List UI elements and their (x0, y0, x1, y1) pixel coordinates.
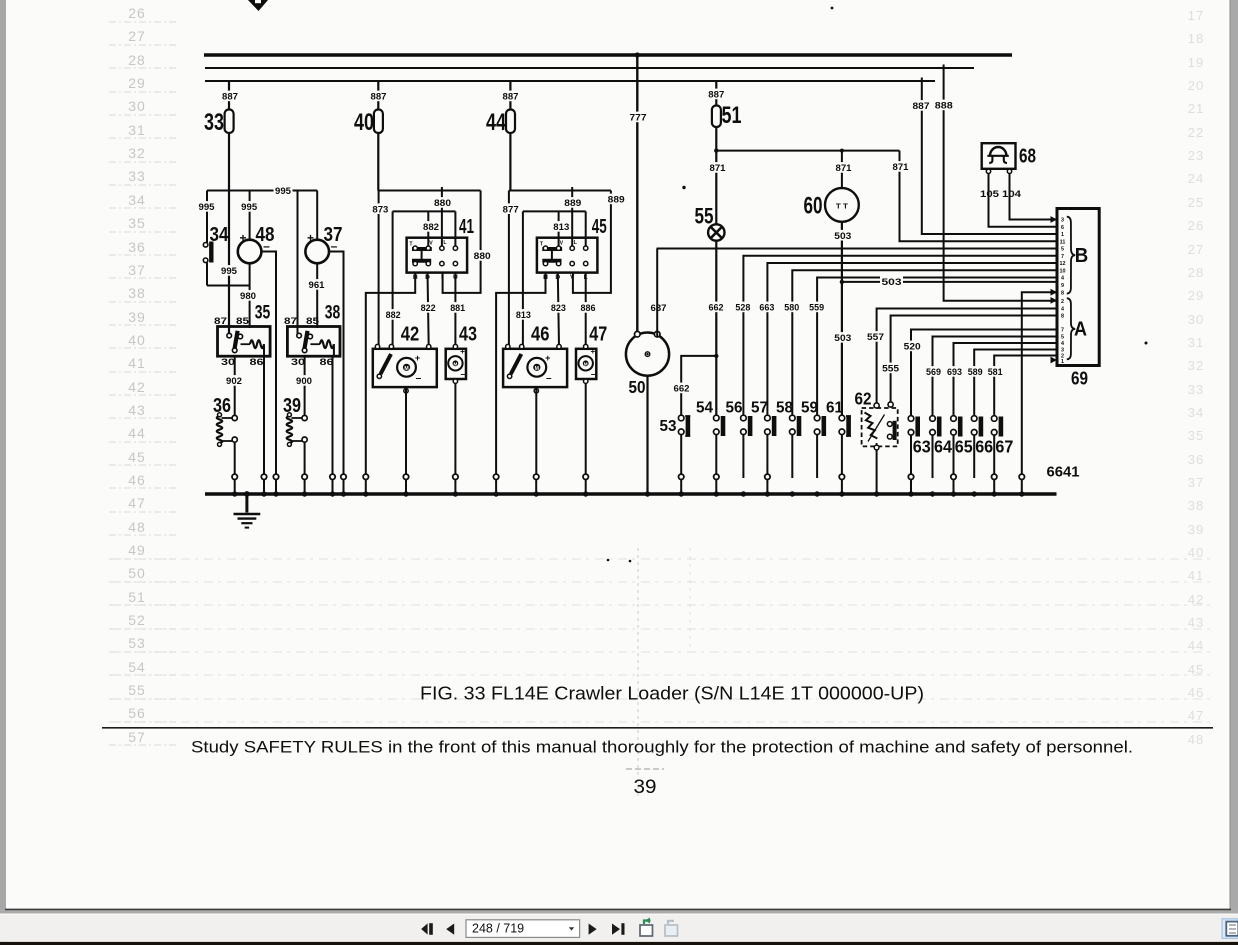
wire - unit 45 pin D to motor 46 (558, 273, 559, 347)
fuse 33 (225, 110, 234, 134)
svg-text:42: 42 (128, 379, 146, 395)
svg-text:17: 17 (1188, 8, 1204, 23)
svg-text:9: 9 (1061, 283, 1064, 289)
svg-text:105: 105 (980, 189, 1000, 200)
wire - 871 rail to gauge 60 (841, 151, 843, 189)
wire - relay 35 pin86 to earth bus (263, 356, 265, 478)
svg-text:46: 46 (531, 323, 550, 346)
svg-text:900: 900 (296, 376, 312, 387)
svg-text:5: 5 (1061, 247, 1064, 253)
svg-text:55: 55 (695, 204, 714, 229)
label 555 (881, 363, 901, 374)
svg-text:45: 45 (128, 449, 146, 465)
label 503 on gauge 60 wire (833, 230, 853, 241)
svg-text:22: 22 (1188, 125, 1204, 140)
svg-text:+: + (545, 353, 550, 363)
toolbar next-view button (disabled) (665, 925, 678, 936)
svg-text:47: 47 (1188, 708, 1204, 723)
switch 57 (765, 415, 771, 421)
svg-text:887: 887 (708, 90, 724, 101)
earth bus terminals (232, 474, 237, 479)
svg-text:873: 873 (372, 204, 388, 215)
wire - connector A pin to earth bus (1022, 292, 1057, 478)
svg-text:33: 33 (1188, 382, 1204, 397)
wire - lamp line to switch 54 (715, 356, 717, 418)
svg-text:37: 37 (324, 223, 343, 246)
svg-text:M: M (453, 362, 457, 367)
wire - unit 41 pin D to motor 42 (428, 273, 429, 347)
wire - switch 34 to junction (206, 263, 208, 286)
connector keying marks (1051, 216, 1058, 223)
svg-text:–: – (416, 373, 422, 384)
toolbar previous-page button (446, 924, 454, 935)
svg-text:902: 902 (226, 376, 242, 387)
wire 105 - gauge 68 to connector B (989, 174, 1058, 227)
label 871 centre (834, 162, 853, 173)
svg-text:886: 886 (581, 303, 596, 314)
wire - rail to horn 48 + (249, 191, 251, 240)
wiper motor 47 (576, 349, 596, 379)
svg-text:663: 663 (759, 303, 774, 314)
svg-text:4: 4 (1061, 276, 1064, 282)
svg-text:50: 50 (629, 377, 646, 397)
svg-text:Study SAFETY RULES in the fron: Study SAFETY RULES in the front of this … (191, 738, 1133, 757)
wire - bus line 3 (205, 80, 935, 82)
svg-text:55: 55 (128, 682, 146, 698)
wire - lamp 55 down to switch 54 (715, 241, 717, 418)
wire - switch 63 to earth bus (910, 435, 912, 478)
svg-text:887: 887 (503, 92, 519, 103)
svg-text:889: 889 (608, 195, 625, 206)
svg-text:37: 37 (1188, 475, 1204, 490)
wire - horn 48 to relay 35 coil (249, 263, 251, 328)
label 961 (307, 279, 326, 290)
label 557 (866, 331, 886, 342)
wire - inner rail to unit 45 pin 4 (585, 211, 587, 247)
svg-text:31: 31 (128, 122, 146, 138)
wire - rail to horn 37 + (316, 191, 318, 239)
wire - branch to switch 53 (681, 356, 716, 418)
svg-text:64: 64 (934, 437, 952, 457)
svg-text:M: M (535, 366, 539, 372)
wire 581 - connector A to switch 67 (994, 356, 1057, 419)
svg-text:53: 53 (660, 418, 677, 435)
wire 589 - connector A to switch 66 (974, 350, 1057, 419)
wire 882 - inner rail to motor 42 pin (392, 211, 394, 346)
svg-text:45: 45 (592, 215, 607, 238)
svg-text:20: 20 (1188, 78, 1204, 93)
svg-text:26: 26 (128, 5, 146, 21)
wire 882 - inner rail to motor 46 pin (522, 211, 524, 346)
svg-text:33: 33 (128, 168, 146, 184)
svg-text:25: 25 (1188, 195, 1204, 210)
svg-text:39: 39 (1188, 522, 1204, 537)
page bottom edge (0, 909, 1238, 914)
wire 557 - connector A to resistor 62 (877, 309, 1057, 406)
wire - relay 38 pin86 to earth bus (332, 356, 334, 478)
fuse 44 (506, 110, 515, 134)
svg-text:42: 42 (401, 323, 420, 346)
svg-text:32: 32 (128, 145, 146, 161)
svg-text:51: 51 (128, 589, 146, 605)
svg-text:569: 569 (926, 367, 941, 378)
label 693 (946, 366, 964, 377)
horn 48 (238, 240, 262, 264)
svg-text:26: 26 (1188, 218, 1204, 233)
svg-text:87: 87 (284, 316, 297, 327)
wire - fuse 44 down to wiper group 45 (509, 133, 511, 191)
svg-text:38: 38 (325, 303, 341, 324)
svg-text:888: 888 (935, 101, 953, 112)
svg-text:777: 777 (630, 113, 647, 124)
wiper motor 46 (503, 349, 567, 387)
resistor 62 (dashed box) (862, 408, 898, 446)
svg-text:M: M (584, 362, 588, 367)
svg-text:86: 86 (320, 357, 334, 368)
wire - horn 48 negative to earth bus (262, 252, 276, 479)
wire - gauge 60 to switch 61 and earth bus (841, 222, 843, 418)
svg-text:44: 44 (128, 425, 146, 441)
label 902 (225, 375, 244, 386)
wire - left drop to motor 46 (508, 191, 510, 347)
solenoid 39 (287, 416, 293, 443)
wire 528 - connector B to switch 56 (743, 256, 1057, 418)
svg-text:–: – (546, 373, 552, 384)
svg-text:36: 36 (213, 394, 231, 417)
wire - switch 66 to earth bus (973, 435, 975, 478)
switch 63 (908, 416, 914, 422)
toolbar last-page button (612, 924, 620, 935)
label 777 (628, 112, 648, 123)
toolbar (0, 914, 1238, 942)
wire - bus line 3 to fuse 51 (715, 81, 717, 106)
scan mark arrow at top (248, 0, 268, 11)
svg-text:T T: T T (836, 204, 849, 211)
wire - horn 37 to relay 38 coil (316, 263, 318, 328)
svg-text:880: 880 (474, 251, 491, 262)
wire - switch 64 to earth bus (932, 435, 934, 478)
svg-text:995: 995 (275, 186, 292, 197)
switch 53 (678, 415, 684, 421)
svg-text:59: 59 (801, 400, 818, 417)
svg-text:V: V (560, 241, 564, 247)
svg-text:580: 580 (784, 303, 799, 314)
svg-text:61: 61 (826, 400, 843, 417)
svg-text:887: 887 (222, 92, 238, 103)
svg-text:528: 528 (735, 303, 750, 314)
svg-text:67: 67 (995, 437, 1013, 457)
svg-text:32: 32 (1188, 358, 1204, 373)
switch 58 (790, 415, 796, 421)
svg-text:662: 662 (709, 303, 724, 314)
svg-text:880: 880 (434, 198, 451, 209)
svg-text:19: 19 (1188, 55, 1204, 70)
svg-text:48: 48 (256, 223, 275, 246)
wire - inner rail to unit 45 pin 2 (558, 211, 560, 247)
svg-text:56: 56 (128, 705, 146, 721)
wire - feed rail for unit 45 (509, 190, 611, 192)
svg-text:813: 813 (553, 222, 569, 233)
junction 871/gauge60 (840, 149, 844, 153)
svg-text:5: 5 (1061, 335, 1064, 341)
svg-text:6641: 6641 (1047, 465, 1080, 481)
svg-text:+: + (239, 231, 246, 245)
junction - branch to switch 53 (714, 354, 718, 358)
svg-text:34: 34 (1188, 405, 1204, 420)
svg-text:43: 43 (459, 323, 477, 346)
svg-text:50: 50 (128, 565, 146, 581)
svg-text:40: 40 (1188, 545, 1204, 560)
wire - switch 53 to earth bus (680, 435, 682, 478)
svg-text:65: 65 (955, 437, 973, 457)
wire - feed 880 to unit 45 pin L (571, 187, 573, 248)
label 871 right (891, 161, 910, 172)
svg-text:995: 995 (221, 266, 238, 277)
svg-text:34: 34 (210, 223, 229, 246)
svg-text:822: 822 (421, 303, 436, 314)
svg-text:871: 871 (836, 163, 853, 174)
svg-text:52: 52 (128, 612, 146, 628)
svg-text:10: 10 (1060, 269, 1066, 275)
svg-text:44: 44 (1188, 638, 1204, 653)
wire 520 - connector A to switch 63 (911, 330, 1057, 419)
svg-text:43: 43 (128, 402, 146, 418)
wire - motor 47 to earth bus (584, 379, 588, 383)
svg-text:889: 889 (564, 198, 581, 209)
svg-text:8: 8 (1061, 290, 1064, 296)
brace B (1067, 217, 1075, 294)
label 888 (933, 100, 954, 111)
horn 37 (305, 240, 329, 264)
wire - inner rail to unit 41 pin 2 (427, 211, 429, 247)
svg-text:871: 871 (710, 163, 727, 174)
svg-text:48: 48 (1188, 732, 1204, 747)
wire - unit 41 pin U to motor 43 (454, 273, 456, 347)
wire 503 - gauge 60 branch to connector B (842, 281, 1057, 283)
svg-text:V: V (570, 274, 575, 281)
svg-text:–: – (460, 369, 465, 379)
svg-text:35: 35 (255, 303, 271, 324)
label 980 (239, 290, 258, 301)
brace A (1067, 298, 1075, 359)
wire 888 - bus line 2 to connector B (944, 68, 1057, 301)
wire - fuse 51 to lamp 55 (715, 127, 717, 225)
wire 871 horizontal rail (716, 150, 899, 152)
svg-text:48: 48 (128, 519, 146, 535)
svg-text:53: 53 (128, 635, 146, 651)
fuse 40 (374, 110, 383, 134)
svg-text:555: 555 (882, 364, 900, 375)
svg-text:39: 39 (128, 309, 146, 325)
toolbar page number box (466, 920, 580, 938)
switch 64 (930, 416, 936, 422)
lower page bleed-through dashed rows (112, 558, 1212, 560)
svg-text:47: 47 (589, 323, 607, 346)
relay 38 (287, 327, 340, 357)
label 503 horizontal (880, 276, 903, 287)
wire - right loop into unit 45 pin 3 (573, 191, 611, 293)
solenoid 36 (217, 416, 223, 443)
svg-text:87: 87 (214, 316, 227, 327)
switch 65 (951, 416, 957, 422)
wiper motor 42 (373, 349, 437, 387)
svg-text:29: 29 (1188, 288, 1204, 303)
wire - motor 46 to earth bus (534, 389, 538, 393)
svg-text:58: 58 (776, 400, 793, 417)
svg-text:39: 39 (283, 394, 301, 417)
svg-text:57: 57 (128, 729, 146, 745)
switch 67 (991, 416, 997, 422)
svg-text:887: 887 (913, 101, 930, 112)
scan specks (831, 7, 834, 10)
wire - motor 50 right pin to connector B (656, 249, 659, 337)
svg-text:60: 60 (804, 193, 823, 220)
svg-text:1: 1 (1061, 359, 1064, 365)
label 995 left (197, 201, 216, 212)
label 581 (986, 366, 1004, 377)
svg-text:104: 104 (1002, 189, 1022, 200)
svg-text:+: + (590, 347, 595, 356)
wire 663 - connector B to switch 57 (767, 263, 1057, 418)
label 559 (808, 302, 826, 313)
svg-text:2: 2 (1061, 299, 1064, 305)
svg-text:41: 41 (1188, 568, 1204, 583)
wire - right loop into unit 41 pin 3 (443, 191, 481, 293)
svg-text:30: 30 (128, 98, 146, 114)
wire - fuse 33 to relay 35 pin 87 (228, 133, 230, 336)
right margin bleed-through row numbers (1188, 8, 1204, 747)
wire 693 - connector A to switch 65 (954, 343, 1058, 419)
switch 54 (714, 415, 720, 421)
toolbar first-page button (421, 923, 427, 934)
wire - unit 41 pin H loop to earth bus (366, 273, 415, 478)
svg-text:FIG. 33 FL14E Crawler Loade: FIG. 33 FL14E Crawler Loader (S/N L14E 1… (420, 683, 924, 704)
svg-text:581: 581 (988, 367, 1004, 378)
wire - bus line 3 to fuse 44 (509, 81, 511, 110)
svg-text:823: 823 (551, 303, 566, 314)
svg-text:86: 86 (250, 357, 264, 368)
wire - lower jumper 34 to 48 (207, 285, 250, 287)
relay 35 (218, 327, 271, 357)
label 589 (966, 366, 984, 377)
svg-text:559: 559 (809, 303, 824, 314)
wire - switch 54 to earth bus (715, 435, 717, 478)
wire 569 - connector A to switch 64 (933, 337, 1058, 419)
wire - rail down to relay 38 pin 87 (297, 191, 299, 336)
label 663 (758, 302, 776, 313)
svg-text:7: 7 (1061, 254, 1064, 260)
label 580 (783, 302, 801, 313)
wire - horn 37 negative to earth bus (330, 252, 344, 479)
svg-text:66: 66 (975, 437, 993, 457)
wire - relay 35 pin30 to solenoid 36 (234, 356, 236, 418)
wire - solenoid 39 to earth bus (304, 442, 306, 478)
svg-text:503: 503 (834, 333, 851, 344)
svg-text:33: 33 (204, 109, 224, 136)
svg-text:31: 31 (1188, 335, 1204, 350)
junction - wire 777 on bus line 1 (635, 52, 640, 57)
switch unit 45 (537, 238, 598, 273)
wire - unit 45 pin U to motor 47 (585, 273, 587, 347)
label 995 on horn 48 wire (240, 201, 259, 212)
wire - switch 56 to earth bus (742, 435, 744, 478)
switch unit 41 (407, 238, 468, 273)
junction - fuse 51 wire / 871 rail (714, 148, 718, 152)
svg-text:36: 36 (128, 239, 146, 255)
wire - bus line 3 to fuse 40 (377, 81, 379, 110)
label 528 (734, 302, 752, 313)
svg-text:693: 693 (947, 367, 962, 378)
toolbar previous-view button (640, 925, 653, 936)
wire - bus line 3 to fuse 33 (228, 81, 230, 110)
label 569 (925, 366, 943, 377)
svg-text:557: 557 (867, 332, 884, 343)
svg-text:I: I (441, 274, 443, 281)
svg-text:637: 637 (651, 303, 667, 314)
svg-text:V: V (429, 241, 433, 247)
svg-text:30: 30 (291, 357, 305, 368)
connector 69 body (1057, 209, 1099, 366)
svg-text:995: 995 (199, 202, 216, 213)
svg-text:11: 11 (1060, 240, 1066, 246)
svg-text:B: B (1075, 245, 1089, 267)
svg-text:1: 1 (1061, 232, 1064, 238)
svg-text:28: 28 (1188, 265, 1204, 280)
wire 555 - connector A to resistor 62 pin 2 (891, 316, 1057, 405)
svg-text:30: 30 (221, 357, 235, 368)
left margin bleed-through row numbers (109, 5, 178, 745)
svg-text:882: 882 (423, 222, 439, 233)
svg-text:7: 7 (1061, 328, 1064, 334)
wire - motor 42 to earth bus (404, 389, 408, 393)
svg-text:85: 85 (306, 316, 320, 327)
svg-text:24: 24 (1188, 171, 1204, 186)
label 995 on rail (274, 185, 293, 196)
label 503 vertical (833, 332, 853, 343)
svg-text:28: 28 (128, 52, 146, 68)
toolbar next-page button (589, 924, 597, 935)
svg-text:38: 38 (128, 285, 146, 301)
junction - 503 branch (840, 280, 844, 284)
gauge 68 (982, 143, 1016, 169)
svg-text:57: 57 (751, 400, 768, 417)
label 887 above fuse 44 (501, 91, 520, 102)
svg-text:41: 41 (128, 355, 146, 371)
earth bus (205, 492, 1057, 495)
label 900 (295, 375, 314, 386)
svg-text:12: 12 (1060, 261, 1066, 267)
separator rule (102, 727, 1213, 729)
svg-text:887: 887 (371, 92, 387, 103)
label 520 (902, 341, 922, 352)
svg-text:4: 4 (1061, 341, 1064, 347)
svg-text:877: 877 (503, 204, 519, 215)
label 662 on lamp 55 wire (707, 302, 725, 313)
svg-text:46: 46 (1188, 685, 1204, 700)
svg-text:3: 3 (1061, 218, 1064, 224)
wire 104 - gauge 68 to connector B (1010, 174, 1058, 220)
svg-text:–: – (591, 369, 596, 379)
wire - motor 43 to earth bus (453, 379, 457, 383)
svg-text:29: 29 (128, 75, 146, 91)
svg-text:41: 41 (459, 215, 474, 238)
fuse 51 (712, 106, 721, 128)
wire - inner rail for unit 45 (523, 210, 586, 212)
wire - switch 67 to earth bus (993, 435, 995, 478)
svg-text:56: 56 (726, 400, 743, 417)
motor 50 (626, 333, 669, 376)
wire - left drop to motor 42 (378, 191, 380, 347)
